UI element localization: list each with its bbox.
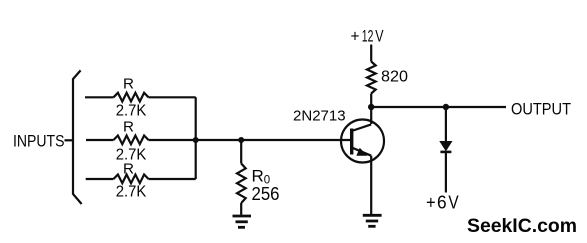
- transistor Q1 body circle: [341, 120, 384, 163]
- wire output line: [371, 106, 506, 108]
- wire diode branch lower: [445, 152, 447, 193]
- svg-text:2.7K: 2.7K: [116, 103, 147, 120]
- svg-text:256: 256: [252, 184, 280, 204]
- svg-text:2N2713: 2N2713: [293, 107, 346, 124]
- resistor R0 256 zigzag: [237, 164, 246, 204]
- ground R0: [233, 216, 252, 227]
- svg-text:R: R: [123, 76, 134, 93]
- svg-text:INPUTS: INPUTS: [13, 131, 65, 150]
- node bus junction dot: [193, 137, 199, 143]
- node collector junction dot: [368, 104, 374, 110]
- wire bus to R0 node: [196, 139, 242, 141]
- input brace: [73, 70, 82, 204]
- diode CR1 triangle: [440, 142, 451, 151]
- transistor Q1 emitter arrow: [357, 149, 366, 156]
- svg-text:R: R: [123, 160, 134, 177]
- wire row2 right lead: [149, 139, 196, 141]
- transistor Q1 collector diagonal: [352, 124, 372, 131]
- ground emitter: [363, 215, 382, 226]
- svg-text:+6V: +6V: [426, 192, 459, 213]
- wire INPUTS dash: [65, 139, 73, 141]
- wire row3 left lead: [86, 178, 114, 180]
- wire row1 left lead: [85, 96, 114, 98]
- wire +12V supply lead: [370, 45, 372, 62]
- svg-text:OUTPUT: OUTPUT: [511, 101, 571, 119]
- transistor Q1 emitter diagonal: [352, 148, 372, 156]
- resistor R3 2.7K zigzag: [114, 175, 149, 184]
- transistor Q1 base bar: [350, 129, 353, 155]
- wire 820 bottom lead / collector: [370, 94, 372, 125]
- resistor R2 2.7K zigzag: [114, 136, 149, 145]
- wire summing bus vertical: [195, 97, 197, 179]
- svg-text:R: R: [123, 118, 134, 135]
- svg-text:820: 820: [381, 69, 408, 86]
- diode CR1 cathode bar: [440, 151, 451, 154]
- wire R0 bottom lead: [240, 203, 242, 215]
- node R0 junction dot: [238, 137, 244, 143]
- node diode junction dot: [443, 104, 449, 110]
- resistor 820 zigzag: [367, 62, 376, 94]
- wire diode branch upper: [445, 107, 447, 142]
- svg-text:SeekIC.com: SeekIC.com: [467, 215, 577, 237]
- wire row2 left lead: [86, 139, 114, 141]
- svg-text:+12V: +12V: [351, 28, 384, 46]
- wire row3 right lead: [149, 178, 196, 180]
- resistor R1 2.7K zigzag: [114, 93, 149, 102]
- wire base lead: [241, 139, 352, 141]
- wire emitter vertical: [370, 156, 372, 215]
- wire row1 right lead: [149, 96, 196, 98]
- svg-text:2.7K: 2.7K: [116, 183, 147, 200]
- wire R0 top lead: [240, 140, 242, 164]
